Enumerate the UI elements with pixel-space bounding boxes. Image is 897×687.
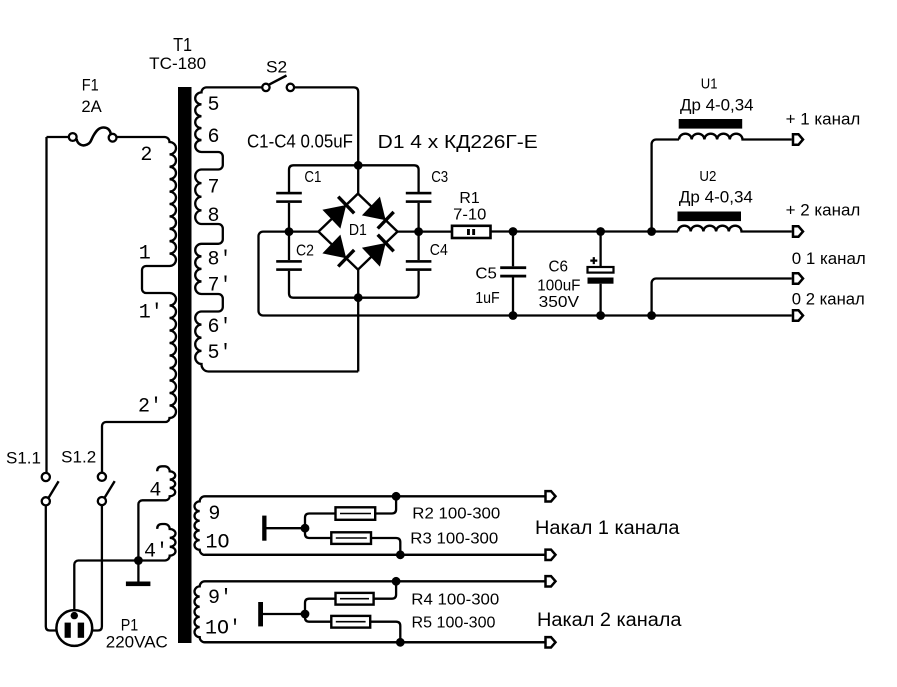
node R2 top (392, 492, 401, 501)
wire 0 1 канал branch (652, 279, 792, 316)
label S1.2 (61, 448, 96, 467)
node 0-1 branch (647, 311, 656, 320)
wire bridge bottom rail (289, 271, 419, 298)
switch S1.2 top contact (98, 473, 106, 481)
svg-text:8': 8' (208, 249, 232, 272)
svg-text:Др 4-0,34: Др 4-0,34 (679, 187, 753, 206)
node U1 branch (647, 227, 656, 236)
node bridge top (354, 161, 363, 170)
svg-text:7-10: 7-10 (453, 207, 486, 224)
label 350V (539, 294, 580, 311)
pin 5' (208, 342, 232, 365)
label Накал 1 канала (535, 518, 680, 539)
fuse F1 left terminal (69, 133, 77, 141)
svg-text:D1: D1 (349, 222, 367, 239)
wire S2 to bridge top (294, 87, 358, 193)
diode D1.3 (left to bottom) (322, 235, 354, 267)
capacitor C3 (406, 192, 432, 203)
svg-text:6': 6' (208, 316, 232, 339)
wire node to R3 (305, 528, 331, 538)
label 100uF (537, 277, 580, 294)
resistor R4 (336, 593, 374, 605)
svg-text:R2 100-300: R2 100-300 (412, 506, 500, 523)
pin 4' (144, 541, 168, 564)
wire node to R4 (305, 599, 336, 614)
pin 10 (206, 532, 230, 555)
node R3 bottom (396, 550, 405, 559)
wire ground node to ground symbol (137, 561, 139, 582)
wire R5 to bottom rail (370, 622, 400, 643)
label C5 (475, 266, 497, 283)
svg-text:C1-C4 0.05uF: C1-C4 0.05uF (247, 132, 353, 152)
wire R3 to bottom rail (371, 538, 400, 555)
svg-text:0 1 канал: 0 1 канал (792, 249, 866, 268)
terminal 0 1 канал (793, 273, 803, 283)
label C4 (430, 242, 448, 259)
transformer T1 secondary winding 5-6-7-8-8'-7'-6'-5' (195, 87, 358, 371)
wire R4 to top rail (374, 581, 397, 598)
choke U2 coil (678, 226, 792, 232)
capacitor C6 (588, 267, 614, 284)
svg-text:T1: T1 (173, 35, 192, 55)
pin 7 (208, 177, 220, 200)
svg-text:220VAC: 220VAC (106, 632, 168, 651)
svg-text:C6: C6 (549, 258, 569, 275)
svg-text:+ 1 канал: + 1 канал (786, 109, 861, 128)
node plug-ground junction (134, 556, 143, 565)
wire chassis bar 2 to node (263, 613, 305, 615)
label C1 (304, 169, 321, 186)
svg-text:U1: U1 (701, 75, 718, 92)
label P1 (121, 616, 139, 635)
svg-text:5': 5' (208, 342, 232, 365)
svg-text:1O': 1O' (205, 617, 241, 640)
label S1.1 (6, 449, 41, 468)
svg-text:9': 9' (208, 587, 232, 610)
terminal + 2 канал (793, 226, 803, 236)
terminal накал 2 bottom (546, 637, 556, 647)
fuse F1 element (77, 127, 111, 145)
label Др 4-0,34 (U2) (679, 187, 753, 206)
resistor R1 (452, 226, 491, 238)
switch S2 left contact (262, 84, 269, 91)
pin 1 (139, 243, 151, 266)
terminal накал 1 bottom (546, 550, 556, 560)
pin 8' (208, 249, 232, 272)
pin 6' (208, 316, 232, 339)
capacitor C6 plus sign (590, 257, 597, 264)
label R5 100-300 (412, 614, 496, 631)
wire S1.2 to plug (92, 505, 102, 630)
node C5 bottom (509, 311, 518, 320)
label Др 4-0,34 (U1) (680, 95, 754, 114)
svg-text:1uF: 1uF (475, 290, 500, 307)
label C3 (431, 169, 448, 186)
label TC-180 (149, 54, 206, 73)
label Накал 2 канала (537, 610, 682, 631)
diode D1.2 (top to right) (362, 197, 394, 229)
svg-text:C1: C1 (304, 169, 321, 186)
transformer T1 core (178, 87, 192, 643)
label C2 (296, 242, 314, 259)
ground (126, 582, 150, 587)
wire bridge right node to R1 (398, 230, 453, 232)
svg-text:7: 7 (208, 177, 220, 200)
label U1 (701, 75, 718, 92)
label 1uF (475, 290, 500, 307)
svg-text:U2: U2 (699, 168, 716, 185)
wire bridge left node (289, 230, 319, 232)
pin 9 (208, 503, 220, 526)
svg-text:7': 7' (208, 275, 232, 298)
resistor R3 (331, 532, 371, 544)
node C5 top (509, 227, 518, 236)
label + 2 канал (786, 201, 861, 220)
chassis bar 2 (258, 602, 263, 626)
svg-text:R4 100-300: R4 100-300 (411, 591, 499, 608)
wire U1 branch (652, 140, 679, 232)
node C6 top (596, 227, 605, 236)
switch S1.2 bottom contact (98, 497, 106, 505)
label R2 100-300 (412, 506, 500, 523)
node bridge left (285, 227, 294, 236)
diode D1.1 (left to top) (322, 197, 354, 229)
pin 8 (208, 205, 220, 228)
svg-text:R5 100-300: R5 100-300 (412, 614, 496, 631)
label 2A (81, 97, 102, 116)
svg-text:Накал 2 канала: Накал 2 канала (537, 610, 682, 631)
resistor R5 (331, 616, 370, 628)
svg-text:4: 4 (149, 480, 161, 503)
wire S1.1 to plug (46, 506, 57, 631)
svg-text:C2: C2 (296, 242, 314, 259)
capacitor C5 (500, 266, 526, 277)
plug P1 body (56, 610, 92, 646)
diode D1.4 (bottom to right) (362, 235, 394, 267)
pin 6 (208, 126, 220, 149)
switch S1.1 bottom contact (42, 497, 50, 505)
choke U1 coil (679, 134, 792, 140)
node bridge bottom (354, 293, 363, 302)
wire накал 2 bottom rail (205, 641, 546, 643)
terminal накал 1 top (546, 491, 556, 501)
svg-text:S1.1: S1.1 (6, 449, 41, 468)
svg-text:2: 2 (140, 144, 152, 167)
svg-text:TC-180: TC-180 (149, 54, 206, 73)
switch S2 right contact (287, 84, 294, 91)
wire bridge right rail (417, 203, 419, 260)
svg-text:1': 1' (139, 302, 163, 325)
svg-text:Накал 1 канала: Накал 1 канала (535, 518, 680, 539)
capacitor C2 (276, 260, 302, 271)
svg-text:1: 1 (139, 243, 151, 266)
label 7-10 (453, 207, 486, 224)
transformer T1 winding 4' and wire to plug (74, 524, 175, 612)
label 0 2 канал (792, 290, 865, 309)
plug P1 left prong (65, 623, 71, 638)
label + 1 канал (786, 109, 861, 128)
transformer T1 winding 4 (138, 466, 175, 558)
svg-text:2': 2' (138, 396, 162, 419)
wire node to R2 (305, 514, 336, 529)
capacitor C4 (406, 260, 432, 271)
wire + rail R1 to U2 (491, 230, 679, 232)
svg-text:C4: C4 (430, 242, 448, 259)
label U2 (699, 168, 716, 185)
label D1 4 x КД226Г-Е (378, 132, 538, 152)
node heater mid 1 (301, 524, 310, 533)
svg-text:6: 6 (208, 126, 220, 149)
terminal накал 2 top (546, 576, 556, 586)
label 0 1 канал (792, 249, 866, 268)
wire bridge top rail (289, 165, 419, 192)
label F1 (82, 76, 99, 95)
pin 5 (208, 94, 220, 117)
plug P1 right prong (78, 623, 84, 638)
pin 1' (139, 302, 163, 325)
switch S2 blade (269, 76, 287, 85)
pin 10' (205, 617, 241, 640)
node R4 top (392, 577, 401, 586)
label R1 (459, 190, 479, 207)
transformer T1 primary winding 2-1-1'-2' (102, 137, 176, 473)
svg-text:5: 5 (208, 94, 220, 117)
label R4 100-300 (411, 591, 499, 608)
wire 0 rail (259, 232, 792, 316)
svg-text:4': 4' (144, 541, 168, 564)
node heater mid 2 (301, 610, 310, 619)
node R5 bottom (396, 638, 405, 647)
svg-text:F1: F1 (82, 76, 99, 95)
pin 2 (140, 144, 152, 167)
wire C5 bottom (512, 278, 514, 316)
pin 2' (138, 396, 162, 419)
svg-text:R3 100-300: R3 100-300 (410, 530, 498, 547)
wire C6 bottom (599, 284, 601, 316)
wire fuse to S1.1 (45, 137, 47, 472)
switch S1.1 top contact (42, 473, 50, 481)
svg-text:1O: 1O (206, 532, 230, 555)
wire C5 top (512, 232, 514, 267)
switch S1.1 blade (49, 481, 59, 497)
svg-text:0 2 канал: 0 2 канал (792, 290, 865, 309)
choke U2 core bar (678, 212, 742, 222)
svg-text:C3: C3 (431, 169, 448, 186)
node C6 bottom (596, 311, 605, 320)
label D1 (349, 222, 367, 239)
wire bridge left rail (288, 203, 290, 260)
svg-text:S1.2: S1.2 (61, 448, 96, 467)
wire bridge bottom to winding 5' (357, 270, 359, 372)
label 220VAC (106, 632, 168, 651)
wire R2 to top rail (375, 496, 396, 513)
transformer T1 heater winding 9-10 (194, 496, 545, 555)
wire C6 top (599, 232, 601, 268)
terminal + 1 канал (793, 134, 803, 144)
wire node to R5 (305, 614, 331, 622)
svg-text:350V: 350V (539, 294, 580, 311)
pin 9' (208, 587, 232, 610)
wire накал 1 bottom rail (205, 554, 546, 556)
switch S1.2 blade (105, 481, 115, 497)
wire chassis bar 1 to node (267, 527, 306, 529)
terminal 0 2 канал (793, 310, 803, 320)
svg-text:D1 4 x КД226Г-Е: D1 4 x КД226Г-Е (378, 132, 538, 152)
svg-text:8: 8 (208, 205, 220, 228)
label C1-C4 0.05uF (247, 132, 353, 152)
label C6 (549, 258, 569, 275)
label S2 (266, 58, 287, 77)
choke U1 core bar (679, 119, 743, 129)
label T1 (173, 35, 192, 55)
node bridge right (414, 227, 423, 236)
svg-text:C5: C5 (475, 266, 497, 283)
capacitor C1 (276, 192, 302, 203)
svg-text:R1: R1 (459, 190, 479, 207)
pin 4 (149, 480, 161, 503)
label R3 100-300 (410, 530, 498, 547)
svg-text:+ 2 канал: + 2 канал (786, 201, 861, 220)
svg-text:S2: S2 (266, 58, 287, 77)
svg-text:100uF: 100uF (537, 277, 580, 294)
rectifier bridge D1 diamond (319, 194, 398, 270)
resistor R2 (336, 507, 376, 520)
pin 7' (208, 275, 232, 298)
chassis bar 1 (262, 516, 266, 541)
wire fuse left (47, 136, 69, 138)
plug P1 ground pin (71, 612, 78, 619)
fuse F1 right terminal (109, 134, 117, 142)
transformer T1 heater winding 9'-10' (195, 581, 546, 642)
svg-text:Др 4-0,34: Др 4-0,34 (680, 95, 754, 114)
svg-text:9: 9 (208, 503, 220, 526)
svg-text:2A: 2A (81, 97, 102, 116)
